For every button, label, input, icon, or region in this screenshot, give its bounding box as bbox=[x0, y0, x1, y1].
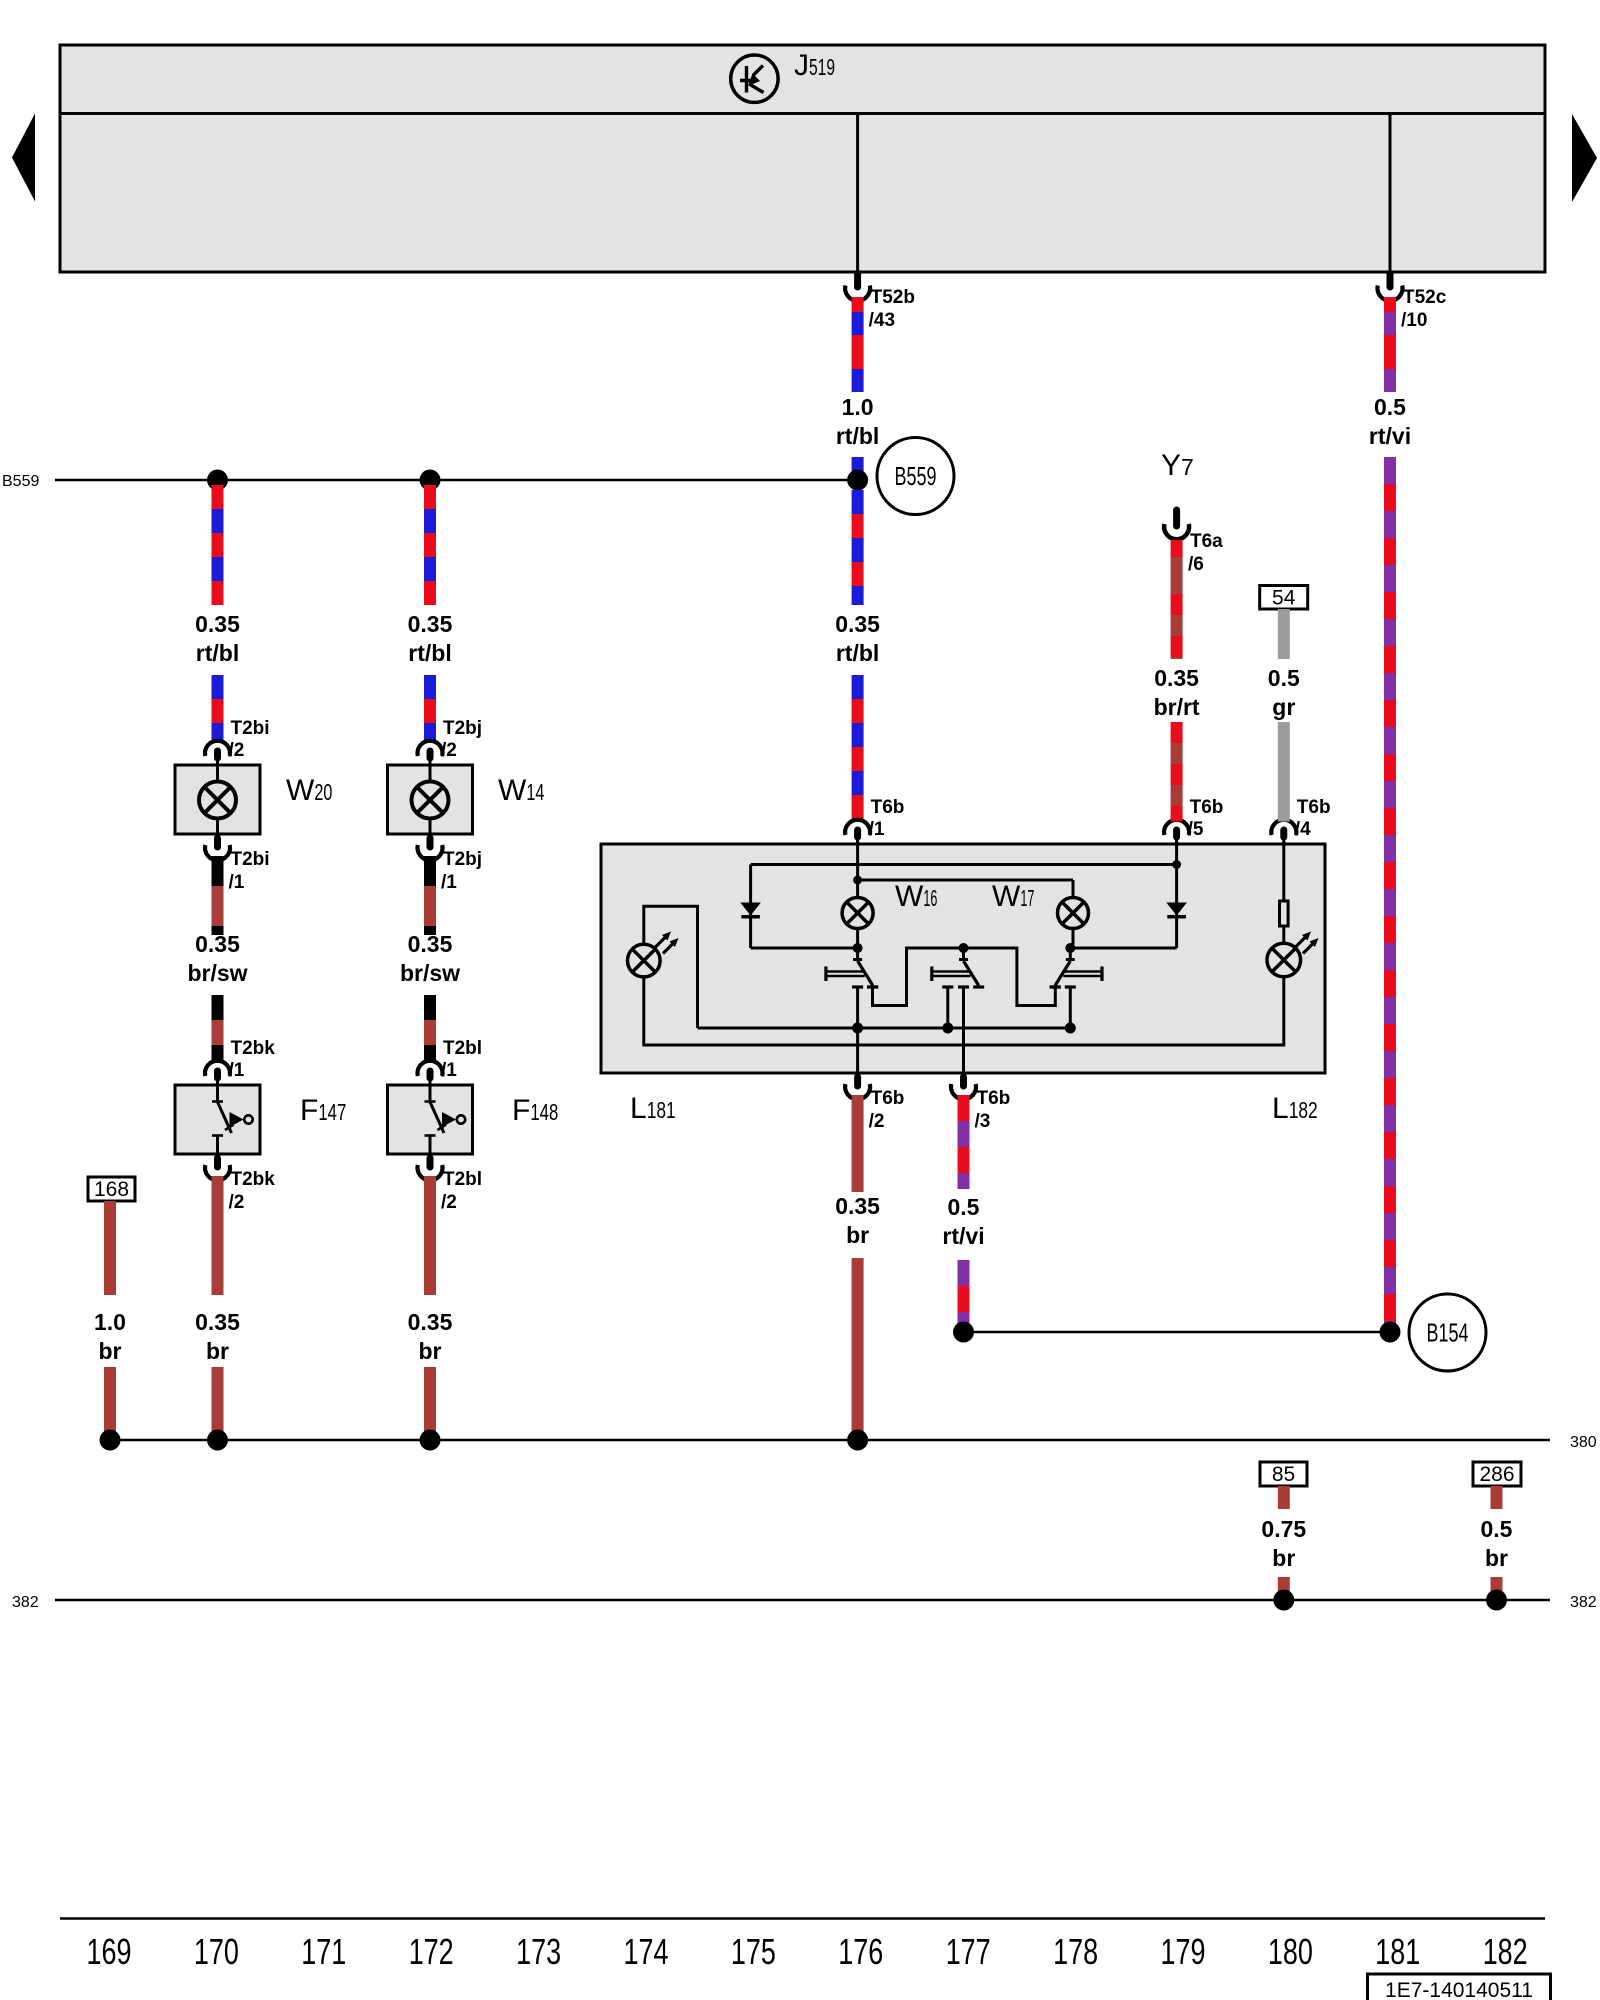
svg-text:286: 286 bbox=[1479, 1463, 1514, 1486]
wire middle node to Q3 bbox=[964, 948, 1056, 1006]
svg-text:/5: /5 bbox=[1188, 819, 1204, 840]
wire 0.5 rt/vi upper bbox=[1384, 297, 1396, 392]
wire 1.0 br col169 upper bbox=[104, 1201, 116, 1295]
wire br col169 lower bbox=[104, 1367, 116, 1440]
svg-text:W14: W14 bbox=[498, 774, 544, 807]
svg-text:0.5: 0.5 bbox=[948, 1194, 980, 1220]
svg-text:L182: L182 bbox=[1272, 1092, 1318, 1125]
wire br/rt lower bbox=[1171, 722, 1183, 822]
wire pin /5 into box bbox=[1175, 841, 1178, 866]
connector T2bk/1 bbox=[205, 1038, 275, 1085]
wire pin /1 into box bbox=[856, 841, 859, 898]
svg-text:1.0: 1.0 bbox=[94, 1309, 126, 1335]
svg-text:T2bl: T2bl bbox=[443, 1169, 482, 1190]
svg-text:0.5: 0.5 bbox=[1481, 1516, 1513, 1542]
lamp W14 bbox=[388, 765, 473, 834]
control unit J519 band bbox=[60, 45, 1545, 272]
wire inside band to T52c bbox=[1389, 114, 1392, 274]
node circle B154 bbox=[1409, 1294, 1486, 1371]
terminal box 54 bbox=[1260, 586, 1308, 610]
svg-text:/1: /1 bbox=[441, 872, 457, 893]
svg-text:T6a: T6a bbox=[1190, 531, 1223, 552]
svg-text:/1: /1 bbox=[229, 872, 245, 893]
wire D2 to W17 node bbox=[1073, 947, 1177, 950]
svg-text:180: 180 bbox=[1268, 1931, 1313, 1972]
svg-text:T6b: T6b bbox=[1190, 797, 1224, 818]
wire br col182 lower bbox=[1491, 1577, 1503, 1600]
terminal box 85 bbox=[1260, 1462, 1307, 1486]
svg-text:W17: W17 bbox=[992, 880, 1034, 913]
wire br/sw col172 lower bbox=[424, 995, 436, 1062]
svg-text:br: br bbox=[419, 1338, 442, 1364]
svg-text:/2: /2 bbox=[869, 1111, 885, 1132]
wire 0.5 gr upper bbox=[1278, 609, 1290, 659]
connector T52b/43 bbox=[845, 274, 915, 331]
svg-text:T2bk: T2bk bbox=[231, 1038, 276, 1059]
wire Q2 left leg to bus bbox=[946, 987, 949, 1028]
band internal line bbox=[60, 112, 1545, 115]
connector T2bk/2 bbox=[205, 1158, 275, 1213]
svg-text:br/sw: br/sw bbox=[187, 960, 247, 986]
column numbers bbox=[87, 1931, 1528, 1972]
svg-text:170: 170 bbox=[194, 1931, 239, 1972]
svg-text:178: 178 bbox=[1053, 1931, 1098, 1972]
diagram id box bbox=[1368, 1974, 1551, 2000]
wire br col172 lower bbox=[424, 1367, 436, 1440]
svg-text:T52c: T52c bbox=[1403, 287, 1447, 308]
connector T2bl/1 bbox=[417, 1038, 482, 1085]
terminal box 286 bbox=[1473, 1462, 1521, 1486]
wire gr lower bbox=[1278, 722, 1290, 822]
svg-text:380: 380 bbox=[1570, 1434, 1597, 1451]
junction node /5 bus bbox=[1172, 860, 1181, 869]
wire 0.35 rt/bl col172 upper bbox=[424, 485, 436, 605]
connector T2bi/1 bbox=[205, 838, 270, 893]
wire br col180 lower bbox=[1278, 1577, 1290, 1600]
wire diode top bus bbox=[751, 863, 1177, 866]
wire Q1 cross-coupling to middle node bbox=[873, 948, 964, 1006]
LED lamp L182 with resistor bbox=[1267, 841, 1319, 977]
transistor Q1 bbox=[826, 948, 878, 987]
svg-text:br/sw: br/sw bbox=[400, 960, 460, 986]
svg-text:/4: /4 bbox=[1295, 819, 1311, 840]
wire Q1 emitter to bus bbox=[856, 987, 859, 1028]
svg-text:br: br bbox=[846, 1222, 869, 1248]
svg-text:0.35: 0.35 bbox=[835, 611, 880, 637]
svg-text:T6b: T6b bbox=[1297, 797, 1331, 818]
svg-text:br/rt: br/rt bbox=[1154, 694, 1200, 720]
wire rt/vi col177 lower bbox=[958, 1260, 970, 1332]
wire 0.35 br col170 upper bbox=[212, 1176, 224, 1295]
lamp W16 bbox=[842, 898, 873, 929]
switch F148 bbox=[388, 1085, 473, 1154]
connector T2bj/2 bbox=[417, 718, 482, 765]
svg-text:rt/bl: rt/bl bbox=[408, 640, 451, 666]
wire br col176 lower bbox=[852, 1258, 864, 1440]
junction junction col180/382 bbox=[1273, 1590, 1294, 1611]
svg-text:T2bi: T2bi bbox=[231, 718, 270, 739]
svg-text:B559: B559 bbox=[2, 473, 39, 490]
svg-text:0.35: 0.35 bbox=[1154, 665, 1199, 691]
svg-text:Y7: Y7 bbox=[1161, 449, 1194, 482]
svg-text:br: br bbox=[99, 1338, 122, 1364]
svg-text:169: 169 bbox=[87, 1931, 132, 1972]
junction junction col172/B559 bbox=[420, 470, 441, 491]
wire 0.5 br col182 upper bbox=[1491, 1486, 1503, 1509]
svg-text:T2bj: T2bj bbox=[443, 849, 482, 870]
lamp W20 bbox=[175, 765, 260, 834]
svg-text:T6b: T6b bbox=[871, 797, 905, 818]
wire rt/bl to T6b1 bbox=[852, 675, 864, 795]
transistor Q3 bbox=[1050, 948, 1102, 987]
switch F147 bbox=[175, 1085, 260, 1154]
connector T2bi/2 bbox=[205, 718, 270, 765]
wire 1.0 rt/bl upper bbox=[852, 297, 864, 392]
wire 0.35 br col176 bbox=[852, 1095, 864, 1192]
svg-text:0.35: 0.35 bbox=[195, 611, 240, 637]
LED lamp L181 bbox=[628, 906, 698, 1028]
svg-text:0.35: 0.35 bbox=[408, 931, 453, 957]
junction junction col170/B559 bbox=[207, 470, 228, 491]
wire bus to pin /2 bbox=[856, 1028, 859, 1073]
svg-text:177: 177 bbox=[946, 1931, 991, 1972]
svg-text:T6b: T6b bbox=[871, 1088, 905, 1109]
svg-text:/1: /1 bbox=[441, 1060, 457, 1081]
wire rt/bl above B559 bbox=[852, 457, 864, 481]
junction junction col169/380 bbox=[100, 1430, 121, 1451]
wire top bus to W17 bbox=[858, 879, 1073, 882]
wire br col170 lower bbox=[212, 1367, 224, 1440]
svg-text:181: 181 bbox=[1375, 1931, 1420, 1972]
transistor Q2 bbox=[932, 948, 984, 987]
junction node middle collector bbox=[959, 943, 969, 953]
node 382 line bbox=[55, 1599, 1550, 1602]
svg-text:/10: /10 bbox=[1401, 310, 1427, 331]
svg-text:174: 174 bbox=[624, 1931, 669, 1972]
diode D2 bbox=[1166, 865, 1187, 949]
svg-text:0.5: 0.5 bbox=[1374, 394, 1406, 420]
wire br/sw col170 lower bbox=[212, 995, 224, 1062]
wire rt/bl col170 lower bbox=[212, 675, 224, 741]
svg-text:gr: gr bbox=[1272, 694, 1295, 720]
svg-text:J519: J519 bbox=[794, 49, 835, 82]
svg-text:/2: /2 bbox=[441, 740, 457, 761]
svg-text:br: br bbox=[206, 1338, 229, 1364]
svg-text:179: 179 bbox=[1161, 1931, 1206, 1972]
junction junction col176/380 bbox=[847, 1430, 868, 1451]
bus symbol K in circle bbox=[731, 55, 778, 102]
connector T6b/4 bbox=[1271, 797, 1330, 844]
svg-text:0.35: 0.35 bbox=[408, 611, 453, 637]
wire rt/bl col172 lower bbox=[424, 675, 436, 741]
svg-text:54: 54 bbox=[1272, 587, 1296, 610]
svg-text:T2bl: T2bl bbox=[443, 1038, 482, 1059]
svg-text:rt/bl: rt/bl bbox=[836, 640, 879, 666]
wire 0.35 rt/bl col170 upper bbox=[212, 485, 224, 605]
wire inside band to T52b bbox=[856, 114, 859, 274]
connector T2bj/1 bbox=[417, 838, 482, 893]
svg-text:1E7-140140511: 1E7-140140511 bbox=[1385, 1979, 1533, 2000]
node circle B559 bbox=[877, 438, 954, 515]
wire W16 to collector bbox=[856, 929, 859, 949]
wire lamp bottoms link bbox=[644, 977, 1284, 1045]
band arrow right bbox=[1572, 114, 1597, 202]
junction node W16 collector bbox=[853, 943, 863, 953]
connector T6b/5 bbox=[1164, 797, 1223, 844]
svg-text:/1: /1 bbox=[229, 1060, 245, 1081]
junction junction col172/380 bbox=[420, 1430, 441, 1451]
node 380 line bbox=[110, 1439, 1550, 1442]
svg-text:F147: F147 bbox=[300, 1094, 346, 1127]
connector T52c/10 bbox=[1378, 274, 1447, 331]
junction bus node Q1 bbox=[852, 1023, 863, 1034]
wire br/rt upper bbox=[1171, 557, 1183, 659]
svg-text:br: br bbox=[1485, 1545, 1508, 1571]
svg-text:/2: /2 bbox=[229, 1192, 245, 1213]
svg-text:0.35: 0.35 bbox=[408, 1309, 453, 1335]
svg-text:0.35: 0.35 bbox=[195, 931, 240, 957]
svg-text:T6b: T6b bbox=[977, 1088, 1011, 1109]
svg-text:/3: /3 bbox=[975, 1111, 991, 1132]
svg-text:176: 176 bbox=[838, 1931, 883, 1972]
svg-text:F148: F148 bbox=[512, 1094, 558, 1127]
svg-text:B154: B154 bbox=[1427, 1318, 1469, 1348]
wire 0.35 br/sw col172 upper bbox=[424, 856, 436, 935]
diode D1 bbox=[740, 865, 761, 949]
svg-text:0.35: 0.35 bbox=[835, 1193, 880, 1219]
junction junction col182/382 bbox=[1486, 1590, 1507, 1611]
junction branch W16/W17 bbox=[853, 876, 862, 885]
connector T6b/3 bbox=[951, 1077, 1010, 1132]
connector T6b/2 bbox=[845, 1077, 904, 1132]
band arrow left bbox=[12, 114, 35, 202]
svg-text:173: 173 bbox=[516, 1931, 561, 1972]
wire 0.35 br col172 upper bbox=[424, 1176, 436, 1295]
svg-text:85: 85 bbox=[1272, 1463, 1295, 1486]
wire rt/vi long bbox=[1384, 457, 1396, 1332]
wire Q2 right leg to pin /3 bbox=[962, 987, 965, 1073]
svg-text:/6: /6 bbox=[1188, 554, 1204, 575]
svg-text:br: br bbox=[1272, 1545, 1295, 1571]
wire rt/bl red end bbox=[852, 795, 864, 822]
svg-text:T52b: T52b bbox=[871, 287, 915, 308]
svg-text:rt/bl: rt/bl bbox=[196, 640, 239, 666]
svg-text:171: 171 bbox=[301, 1931, 346, 1972]
svg-text:168: 168 bbox=[94, 1178, 129, 1201]
svg-text:175: 175 bbox=[731, 1931, 776, 1972]
svg-text:382: 382 bbox=[1570, 1594, 1597, 1611]
svg-text:T2bj: T2bj bbox=[443, 718, 482, 739]
junction bus node Q3 bbox=[1065, 1023, 1076, 1034]
connector T2bl/2 bbox=[417, 1158, 482, 1213]
junction junction col170/380 bbox=[207, 1430, 228, 1451]
junction junction col181/B154 bbox=[1380, 1322, 1401, 1343]
connector T6b/1 bbox=[845, 797, 904, 844]
svg-text:rt/vi: rt/vi bbox=[1369, 423, 1411, 449]
svg-text:1.0: 1.0 bbox=[842, 394, 874, 420]
svg-text:0.75: 0.75 bbox=[1261, 1516, 1306, 1542]
junction bus node Q2 bbox=[942, 1023, 953, 1034]
wire 0.35 br/rt red head bbox=[1171, 540, 1183, 557]
svg-text:0.35: 0.35 bbox=[195, 1309, 240, 1335]
svg-text:382: 382 bbox=[12, 1594, 39, 1611]
svg-text:rt/vi: rt/vi bbox=[942, 1223, 984, 1249]
svg-text:rt/bl: rt/bl bbox=[836, 423, 879, 449]
ruler line bbox=[60, 1917, 1545, 1920]
svg-text:L181: L181 bbox=[630, 1092, 676, 1125]
svg-text:182: 182 bbox=[1483, 1931, 1528, 1972]
wire 0.35 br/sw col170 upper bbox=[212, 856, 224, 935]
wire 0.5 rt/vi col177 bbox=[958, 1095, 970, 1189]
junction node W17 collector bbox=[1065, 943, 1075, 953]
wire W17 to collector bbox=[1072, 929, 1075, 949]
svg-text:/2: /2 bbox=[229, 740, 245, 761]
svg-text:/2: /2 bbox=[441, 1192, 457, 1213]
svg-text:172: 172 bbox=[409, 1931, 454, 1972]
wire Q3 emitter to bus bbox=[1069, 987, 1072, 1028]
wire emitter bus bbox=[698, 1027, 1071, 1030]
wire 0.75 br col180 upper bbox=[1278, 1486, 1290, 1509]
wire 0.35 rt/bl below B559 bbox=[852, 490, 864, 605]
svg-text:W16: W16 bbox=[895, 880, 937, 913]
node B154 line bbox=[964, 1331, 1391, 1334]
wire D1 to W16 node bbox=[751, 947, 858, 950]
svg-text:/43: /43 bbox=[869, 310, 895, 331]
connector T6a/6 bbox=[1164, 510, 1223, 575]
svg-text:T2bi: T2bi bbox=[231, 849, 270, 870]
svg-text:W20: W20 bbox=[286, 774, 332, 807]
svg-text:T2bk: T2bk bbox=[231, 1169, 276, 1190]
mirror assembly box L181/L182 bbox=[601, 844, 1325, 1073]
junction junction col177/B154 bbox=[953, 1322, 974, 1343]
junction B559 junction bbox=[847, 470, 868, 491]
svg-text:/1: /1 bbox=[869, 819, 885, 840]
svg-text:0.5: 0.5 bbox=[1268, 665, 1300, 691]
svg-text:B559: B559 bbox=[895, 461, 937, 491]
node B559 line bbox=[55, 479, 858, 482]
terminal box 168 bbox=[88, 1177, 135, 1201]
lamp W17 bbox=[1058, 898, 1089, 929]
